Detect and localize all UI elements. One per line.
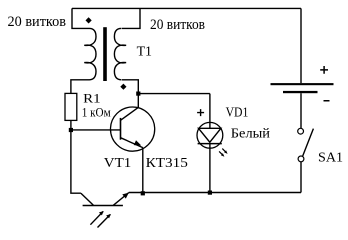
junction base node <box>69 128 73 132</box>
LED arrow 2 head <box>221 153 225 157</box>
wire node base down to photoelement <box>71 130 81 193</box>
polarity dot winding I <box>86 17 92 23</box>
junction emitter-rail <box>141 191 145 195</box>
light arrow 1 head <box>99 211 104 215</box>
phototransistor base bar <box>83 205 123 207</box>
wire LED cathode to rail <box>209 144 211 193</box>
LED light arrow 1 <box>222 149 225 152</box>
battery GB1 negative plate <box>283 91 318 93</box>
LED VD1 cathode bar <box>198 143 222 145</box>
wire battery minus to switch <box>300 93 302 128</box>
battery minus sign <box>324 100 330 102</box>
junction collector node <box>136 92 140 96</box>
light arrow 1 into phototransistor <box>90 211 103 224</box>
transistor VT1 base bar <box>120 118 122 140</box>
svg-text:1 кОм: 1 кОм <box>82 105 111 120</box>
wire emitter down to rail <box>142 148 144 193</box>
transformer T1 core <box>103 27 107 81</box>
wire collector node to LED anode <box>138 93 210 95</box>
svg-text:КТ315: КТ315 <box>146 155 189 170</box>
transistor VT1 circle <box>111 107 155 151</box>
transistor VT1 emitter diagonal <box>121 138 143 148</box>
svg-text:Белый: Белый <box>231 126 270 141</box>
wire top rail <box>72 7 301 9</box>
light arrow 2 head <box>106 214 111 218</box>
battery GB1 positive plate <box>271 83 334 85</box>
svg-text:VD1: VD1 <box>226 105 249 120</box>
transformer T1 winding I (left, 20 turns) <box>84 28 96 79</box>
LED VD1 circle <box>197 122 223 148</box>
switch SA1 blade <box>303 129 314 156</box>
polarity dot winding II <box>120 84 126 90</box>
transformer T1 winding II (right, 20 turns) <box>114 28 126 79</box>
phototransistor left lead diagonal <box>81 193 94 205</box>
svg-text:SA1: SA1 <box>318 149 343 164</box>
wire bottom rail <box>129 192 301 194</box>
transistor VT1 collector diagonal <box>121 107 139 120</box>
label + LED anode <box>197 109 204 116</box>
svg-text:R1: R1 <box>83 90 101 105</box>
LED arrow 1 head <box>224 150 228 154</box>
phototransistor emitter arrowhead <box>122 193 129 199</box>
wire top rail right drop to battery <box>300 8 302 83</box>
wire LED anode lead <box>209 94 211 129</box>
wire base node to transistor base <box>71 129 121 131</box>
phototransistor emitter diagonal <box>113 193 129 206</box>
wire right winding bottom lead to collector <box>122 80 139 107</box>
LED light arrow 2 <box>219 151 222 154</box>
svg-text:T1: T1 <box>137 44 152 59</box>
wire R1 bottom to base node <box>70 120 72 130</box>
wire left winding bottom lead to R1 <box>71 80 90 94</box>
svg-text:20 витков: 20 витков <box>150 17 205 33</box>
label + battery <box>320 66 328 74</box>
svg-text:VT1: VT1 <box>104 155 132 170</box>
LED VD1 triangle <box>199 128 221 142</box>
junction LED-rail <box>208 191 212 195</box>
resistor R1 body <box>65 93 77 120</box>
switch SA1 top contact <box>298 128 304 134</box>
wire right winding top lead <box>122 8 141 28</box>
wire left winding top lead <box>72 8 90 28</box>
light arrow 2 into phototransistor <box>98 214 111 227</box>
wire switch to bottom rail <box>300 162 302 193</box>
switch SA1 bottom contact <box>298 156 304 162</box>
transistor VT1 emitter arrowhead <box>134 140 142 145</box>
svg-text:20 витков: 20 витков <box>8 14 67 30</box>
